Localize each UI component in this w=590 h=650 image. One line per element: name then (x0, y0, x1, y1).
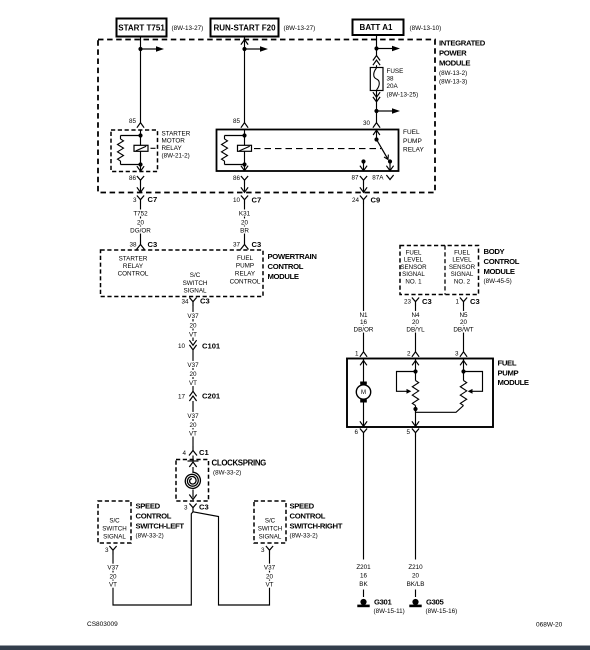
svg-text:INTEGRATED: INTEGRATED (439, 38, 486, 47)
svg-text:FUEL: FUEL (406, 249, 422, 256)
svg-text:BR: BR (240, 227, 249, 234)
svg-text:(8W-13-27): (8W-13-27) (172, 25, 204, 32)
svg-text:CONTROL: CONTROL (484, 257, 520, 266)
svg-text:POWERTRAIN: POWERTRAIN (268, 252, 318, 261)
svg-text:VT: VT (189, 331, 197, 338)
svg-text:C1: C1 (199, 448, 209, 457)
svg-text:G305: G305 (426, 598, 444, 607)
svg-text:86: 86 (233, 175, 241, 182)
svg-text:BATT A1: BATT A1 (360, 23, 393, 32)
svg-text:DB/OR: DB/OR (354, 326, 374, 333)
svg-text:20: 20 (412, 572, 420, 579)
svg-text:FUEL: FUEL (237, 255, 254, 262)
svg-text:G301: G301 (374, 598, 392, 607)
svg-text:T752: T752 (133, 210, 148, 217)
svg-text:SIGNAL: SIGNAL (402, 271, 425, 278)
svg-text:SIGNAL: SIGNAL (183, 288, 207, 295)
svg-text:SIGNAL: SIGNAL (259, 533, 282, 540)
svg-text:C3: C3 (200, 297, 210, 306)
svg-text:Z201: Z201 (356, 564, 371, 571)
svg-text:10: 10 (233, 197, 241, 204)
svg-text:V37: V37 (107, 564, 119, 571)
svg-text:VT: VT (109, 581, 117, 588)
svg-text:N1: N1 (359, 312, 368, 319)
svg-text:BK: BK (359, 581, 368, 588)
svg-text:C3: C3 (252, 240, 262, 249)
svg-text:SPEED: SPEED (136, 501, 161, 510)
svg-text:(8W-13-10): (8W-13-10) (410, 25, 442, 32)
svg-text:K31: K31 (239, 210, 251, 217)
svg-text:VT: VT (189, 380, 197, 387)
svg-text:PUMP: PUMP (236, 263, 254, 270)
svg-text:C7: C7 (252, 195, 262, 204)
svg-text:RUN-START F20: RUN-START F20 (213, 24, 276, 33)
svg-text:DB/YL: DB/YL (406, 326, 425, 333)
svg-text:38: 38 (129, 242, 137, 249)
svg-text:C3: C3 (422, 297, 432, 306)
svg-text:(8W-13-2): (8W-13-2) (439, 70, 467, 77)
svg-text:10: 10 (178, 343, 186, 350)
svg-text:SPEED: SPEED (290, 501, 315, 510)
svg-text:2: 2 (407, 350, 411, 357)
svg-text:MODULE: MODULE (498, 378, 529, 387)
svg-text:RELAY: RELAY (123, 263, 144, 270)
svg-text:SIGNAL: SIGNAL (451, 271, 474, 278)
svg-text:87: 87 (351, 175, 359, 182)
svg-text:85: 85 (129, 118, 137, 125)
svg-text:SWITCH: SWITCH (258, 526, 282, 533)
svg-text:23: 23 (404, 299, 412, 306)
svg-text:RELAY: RELAY (235, 271, 256, 278)
svg-text:38: 38 (387, 75, 395, 82)
svg-text:87A: 87A (372, 175, 384, 182)
svg-text:V37: V37 (187, 362, 199, 369)
svg-text:S/C: S/C (109, 518, 120, 525)
svg-text:CONTROL: CONTROL (290, 511, 326, 520)
svg-text:DB/WT: DB/WT (453, 326, 473, 333)
svg-text:Z210: Z210 (408, 564, 423, 571)
svg-text:BK/LB: BK/LB (407, 581, 425, 588)
svg-text:(8W-13-27): (8W-13-27) (284, 25, 316, 32)
svg-text:86: 86 (129, 175, 137, 182)
svg-text:CLOCKSPRING: CLOCKSPRING (212, 459, 267, 468)
svg-text:20: 20 (241, 219, 249, 226)
svg-text:C3: C3 (148, 240, 158, 249)
svg-text:20: 20 (412, 319, 420, 326)
svg-text:SWITCH: SWITCH (183, 280, 208, 287)
svg-text:20: 20 (189, 422, 197, 429)
svg-text:CONTROL: CONTROL (118, 271, 149, 278)
svg-text:3: 3 (455, 350, 459, 357)
svg-text:C9: C9 (371, 196, 381, 205)
svg-text:(8W-13-3): (8W-13-3) (439, 78, 467, 85)
svg-text:3: 3 (105, 547, 109, 554)
svg-text:S/C: S/C (190, 272, 201, 279)
svg-text:20: 20 (189, 371, 197, 378)
svg-text:16: 16 (360, 572, 368, 579)
svg-text:FUSE: FUSE (387, 68, 404, 75)
svg-text:N5: N5 (459, 312, 468, 319)
svg-text:V37: V37 (264, 564, 276, 571)
svg-text:17: 17 (178, 393, 186, 400)
svg-text:SWITCH: SWITCH (102, 526, 126, 533)
svg-text:C201: C201 (202, 392, 221, 401)
svg-text:20: 20 (189, 322, 197, 329)
svg-text:(8W-15-11): (8W-15-11) (374, 608, 405, 615)
svg-text:CONTROL: CONTROL (230, 278, 261, 285)
svg-text:STARTER: STARTER (119, 255, 148, 262)
svg-text:PUMP: PUMP (403, 138, 422, 145)
svg-text:6: 6 (354, 429, 358, 436)
svg-text:1: 1 (455, 299, 459, 306)
svg-text:MOTOR: MOTOR (162, 138, 186, 145)
svg-text:C101: C101 (202, 342, 221, 351)
svg-text:CONTROL: CONTROL (268, 262, 304, 271)
svg-text:MODULE: MODULE (439, 59, 470, 68)
svg-text:LEVEL: LEVEL (452, 257, 472, 264)
svg-text:NO. 1: NO. 1 (405, 279, 422, 286)
svg-text:NO. 2: NO. 2 (454, 279, 471, 286)
svg-text:RELAY: RELAY (403, 147, 424, 154)
svg-text:20: 20 (109, 573, 117, 580)
svg-text:SWITCH-RIGHT: SWITCH-RIGHT (290, 522, 343, 531)
svg-text:FUEL: FUEL (403, 129, 420, 136)
svg-text:37: 37 (233, 242, 241, 249)
svg-text:20: 20 (266, 573, 274, 580)
svg-text:M: M (361, 390, 366, 396)
svg-text:(8W-13-25): (8W-13-25) (387, 91, 419, 98)
svg-text:FUEL: FUEL (498, 358, 517, 367)
svg-text:068W-20: 068W-20 (536, 621, 563, 628)
svg-text:(8W-45-5): (8W-45-5) (484, 278, 512, 285)
svg-text:N4: N4 (411, 312, 420, 319)
svg-text:3: 3 (133, 197, 137, 204)
svg-text:LEVEL: LEVEL (404, 257, 424, 264)
svg-text:V37: V37 (187, 313, 199, 320)
svg-text:STARTER: STARTER (162, 130, 191, 137)
svg-text:START T751: START T751 (118, 24, 165, 33)
svg-text:1: 1 (355, 350, 359, 357)
svg-text:SENSOR: SENSOR (449, 264, 476, 271)
svg-text:DG/OR: DG/OR (130, 227, 151, 234)
svg-text:85: 85 (233, 118, 241, 125)
svg-text:(8W-21-2): (8W-21-2) (162, 152, 190, 159)
svg-text:20: 20 (460, 319, 468, 326)
svg-text:CS803009: CS803009 (87, 621, 118, 628)
svg-text:20: 20 (137, 219, 145, 226)
svg-text:MODULE: MODULE (268, 272, 299, 281)
svg-text:CONTROL: CONTROL (136, 511, 172, 520)
svg-text:C3: C3 (470, 297, 480, 306)
svg-text:BODY: BODY (484, 247, 505, 256)
svg-text:20A: 20A (387, 83, 399, 90)
svg-text:PUMP: PUMP (498, 368, 519, 377)
svg-text:FUEL: FUEL (454, 249, 470, 256)
svg-text:S/C: S/C (265, 518, 276, 525)
svg-text:V37: V37 (187, 413, 199, 420)
svg-text:3: 3 (261, 547, 265, 554)
svg-text:VT: VT (265, 581, 273, 588)
svg-text:C3: C3 (199, 503, 209, 512)
svg-text:5: 5 (406, 429, 410, 436)
svg-text:SIGNAL: SIGNAL (103, 533, 126, 540)
svg-text:30: 30 (363, 120, 371, 127)
svg-text:RELAY: RELAY (162, 145, 183, 152)
svg-text:16: 16 (360, 319, 368, 326)
svg-text:34: 34 (181, 298, 189, 305)
svg-text:24: 24 (352, 197, 360, 204)
svg-text:C7: C7 (148, 195, 158, 204)
svg-text:MODULE: MODULE (484, 267, 515, 276)
svg-text:(8W-15-16): (8W-15-16) (426, 608, 458, 615)
svg-text:3: 3 (184, 504, 188, 511)
svg-text:(8W-33-2): (8W-33-2) (213, 469, 241, 476)
svg-text:(8W-33-2): (8W-33-2) (136, 533, 164, 540)
svg-text:SENSOR: SENSOR (400, 264, 427, 271)
svg-text:(8W-33-2): (8W-33-2) (290, 533, 318, 540)
svg-text:VT: VT (189, 430, 197, 437)
svg-text:POWER: POWER (439, 48, 467, 57)
svg-text:4: 4 (182, 450, 186, 457)
svg-text:SWITCH-LEFT: SWITCH-LEFT (136, 522, 185, 531)
